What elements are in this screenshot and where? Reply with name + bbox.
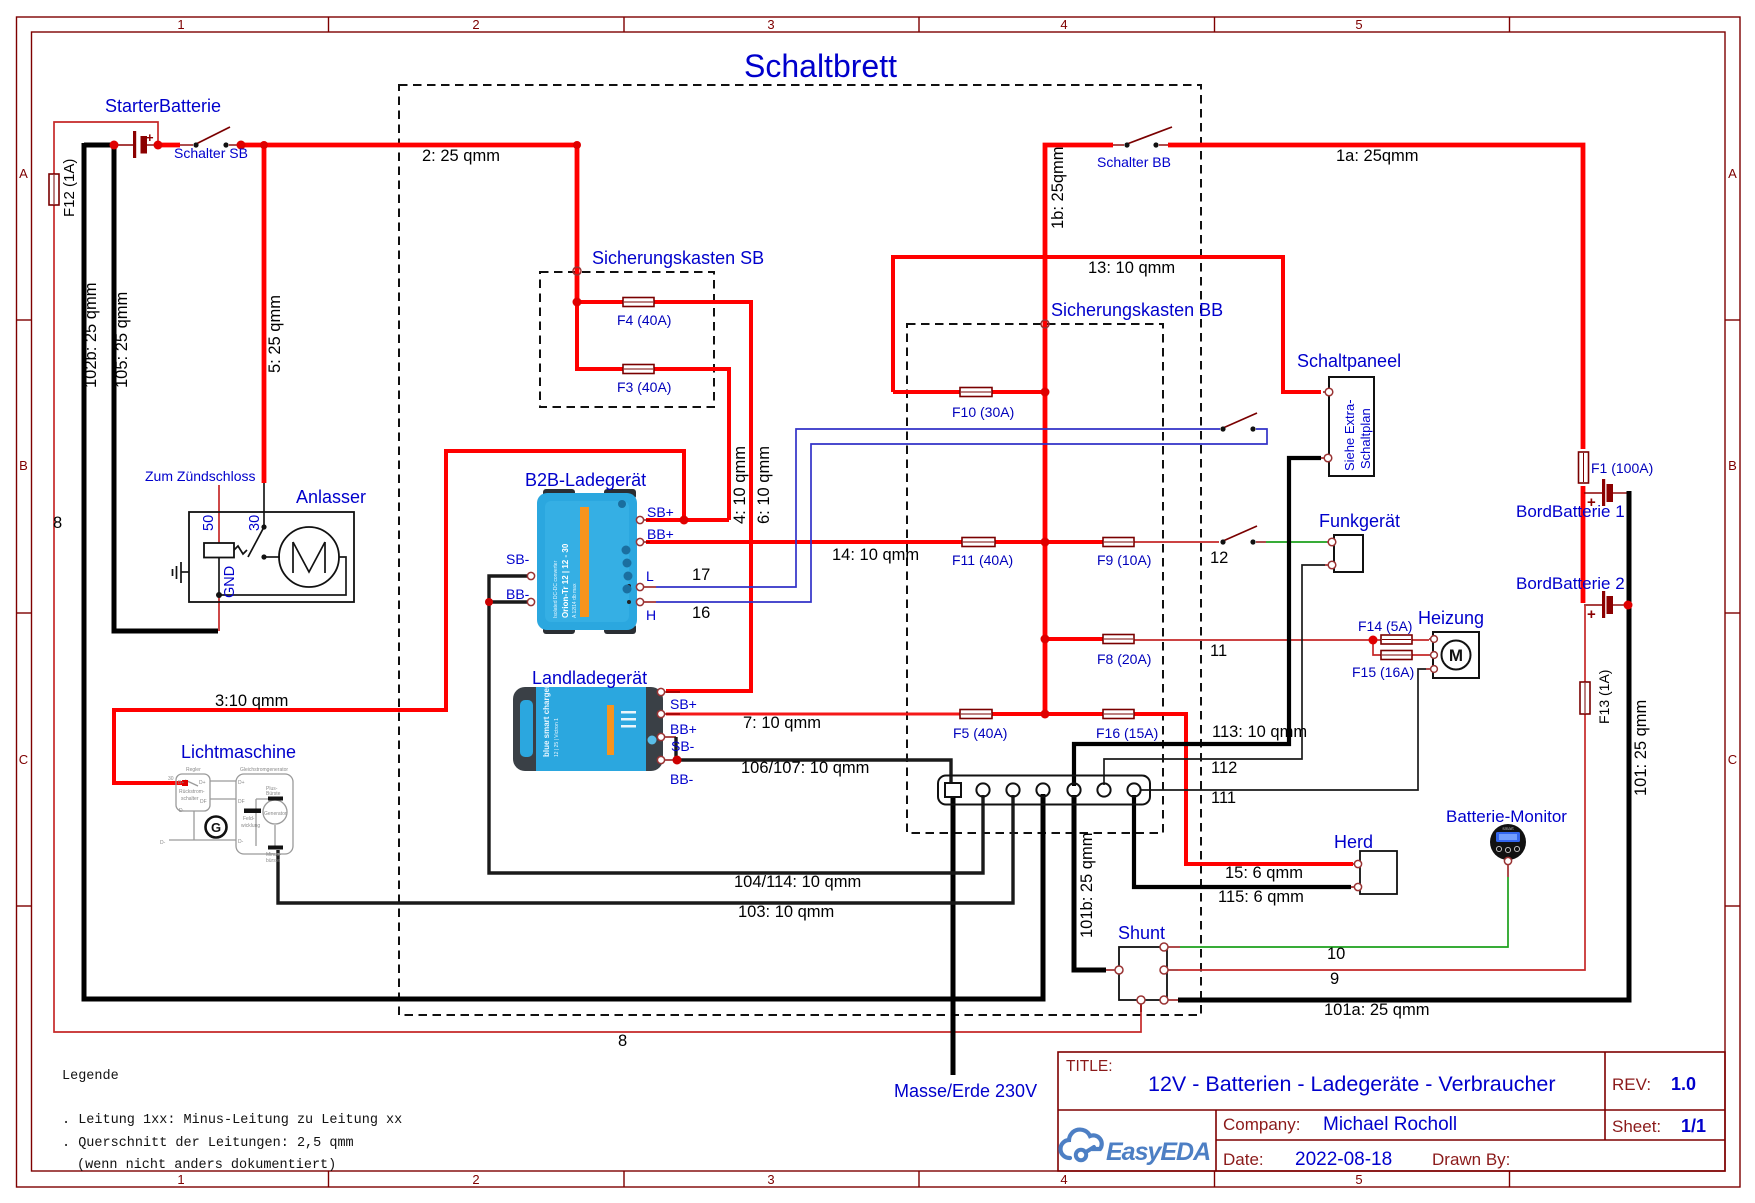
svg-text:Company:: Company:: [1223, 1115, 1300, 1134]
svg-text:D-: D-: [238, 839, 244, 845]
svg-text:BB+: BB+: [670, 721, 697, 737]
svg-text:1: 1: [177, 17, 184, 32]
svg-text:12: 12: [1210, 549, 1228, 567]
svg-text:F15 (16A): F15 (16A): [1352, 664, 1414, 680]
svg-text:SB-: SB-: [506, 551, 530, 567]
svg-text:Masse/Erde 230V: Masse/Erde 230V: [894, 1081, 1037, 1101]
svg-text:F4 (40A): F4 (40A): [617, 312, 671, 328]
svg-text:G: G: [211, 820, 221, 835]
svg-text:14: 10 qmm: 14: 10 qmm: [832, 546, 919, 564]
svg-text:17: 17: [692, 566, 710, 584]
svg-text:Sicherungskasten BB: Sicherungskasten BB: [1051, 300, 1223, 320]
svg-text:9: 9: [1330, 970, 1339, 988]
svg-text:D-: D-: [160, 840, 166, 846]
svg-text:Date:: Date:: [1223, 1150, 1264, 1169]
svg-text:1b: 25qmm: 1b: 25qmm: [1049, 146, 1067, 229]
svg-text:GND: GND: [222, 566, 238, 598]
svg-text:M: M: [1449, 646, 1463, 665]
svg-text:BordBatterie 2: BordBatterie 2: [1516, 574, 1625, 593]
svg-text:B: B: [1728, 458, 1737, 473]
svg-text:F3 (40A): F3 (40A): [617, 379, 671, 395]
svg-text:Sicherungskasten SB: Sicherungskasten SB: [592, 248, 764, 268]
svg-text:D+: D+: [238, 780, 245, 786]
svg-text:blue smart charger: blue smart charger: [542, 685, 551, 757]
svg-text:4: 10 qmm: 4: 10 qmm: [731, 446, 749, 524]
svg-text:L: L: [646, 568, 654, 584]
svg-text:1/1: 1/1: [1681, 1116, 1706, 1136]
svg-text:6: 10 qmm: 6: 10 qmm: [755, 446, 773, 524]
svg-text:F8 (20A): F8 (20A): [1097, 651, 1151, 667]
svg-text:B+: B+: [178, 780, 184, 786]
svg-text:Siehe Extra-: Siehe Extra-: [1342, 399, 1357, 471]
svg-text:+: +: [146, 130, 154, 145]
svg-text:12 | 25 | Victron 1: 12 | 25 | Victron 1: [554, 718, 560, 757]
svg-text:Isolated DC-DC converter: Isolated DC-DC converter: [553, 560, 559, 618]
svg-text:111: 111: [1211, 789, 1236, 807]
svg-text:Landladegerät: Landladegerät: [532, 668, 647, 688]
svg-text:smart: smart: [1502, 826, 1514, 831]
svg-text:104/114: 10 qmm: 104/114: 10 qmm: [734, 873, 861, 891]
svg-text:4: 4: [1060, 1172, 1067, 1187]
svg-text:5: 5: [1355, 17, 1362, 32]
svg-text:schalter: schalter: [181, 796, 199, 802]
svg-text:StarterBatterie: StarterBatterie: [105, 96, 221, 116]
svg-text:(wenn nicht anders dokumentier: (wenn nicht anders dokumentiert): [77, 1158, 336, 1173]
svg-text:Funkgerät: Funkgerät: [1319, 511, 1400, 531]
svg-text:5: 5: [1355, 1172, 1362, 1187]
svg-text:113: 10 qmm: 113: 10 qmm: [1212, 723, 1307, 741]
svg-text:2: 2: [472, 17, 479, 32]
svg-text:Feld-: Feld-: [243, 816, 255, 822]
svg-text:2: 2: [472, 1172, 479, 1187]
svg-text:11: 11: [1210, 642, 1227, 660]
svg-text:BB-: BB-: [670, 771, 694, 787]
svg-text:Anlasser: Anlasser: [296, 487, 366, 507]
svg-text:+: +: [1587, 606, 1596, 623]
svg-text:112: 112: [1211, 759, 1237, 777]
svg-text:Legende: Legende: [62, 1069, 119, 1084]
svg-text:wicklung: wicklung: [241, 823, 260, 829]
svg-text:Shunt: Shunt: [1118, 923, 1165, 943]
svg-text:1: 1: [177, 1172, 184, 1187]
svg-text:Rückstrom-: Rückstrom-: [179, 789, 205, 795]
svg-text:C: C: [19, 752, 28, 767]
svg-text:Sheet:: Sheet:: [1612, 1117, 1661, 1136]
svg-text:8: 8: [53, 514, 62, 532]
svg-text:7: 10 qmm: 7: 10 qmm: [743, 714, 821, 732]
svg-text:10: 10: [1327, 945, 1345, 963]
svg-text:115: 6 qmm: 115: 6 qmm: [1218, 888, 1304, 906]
svg-text:Drawn By:: Drawn By:: [1432, 1150, 1510, 1169]
svg-text:50: 50: [201, 515, 217, 531]
svg-text:15: 6 qmm: 15: 6 qmm: [1225, 864, 1303, 882]
svg-text:D+: D+: [199, 780, 206, 786]
svg-text:Orion-Tr 12 | 12 - 30: Orion-Tr 12 | 12 - 30: [561, 543, 570, 618]
svg-text:105: 25 qmm: 105: 25 qmm: [113, 292, 131, 388]
svg-text:1a: 25qmm: 1a: 25qmm: [1336, 147, 1419, 165]
svg-text:F5 (40A): F5 (40A): [953, 725, 1007, 741]
svg-text:A: A: [1728, 166, 1737, 181]
svg-text:3:10 qmm: 3:10 qmm: [215, 692, 288, 710]
svg-text:EasyEDA: EasyEDA: [1106, 1138, 1210, 1166]
svg-text:BB+: BB+: [647, 526, 674, 542]
svg-text:DF: DF: [200, 799, 207, 805]
svg-text:F13 (1A): F13 (1A): [1596, 670, 1612, 724]
svg-text:16: 16: [692, 604, 710, 622]
svg-text:Lichtmaschine: Lichtmaschine: [181, 742, 296, 762]
svg-text:Gleichstromgenerator: Gleichstromgenerator: [240, 767, 288, 773]
svg-text:SB-: SB-: [671, 738, 695, 754]
svg-text:1.0: 1.0: [1671, 1074, 1696, 1094]
svg-text:3: 3: [767, 17, 774, 32]
svg-text:Regler: Regler: [186, 767, 201, 773]
svg-text:12V - Batterien - Ladegeräte -: 12V - Batterien - Ladegeräte - Verbrauch…: [1148, 1072, 1556, 1096]
svg-text:B2B-Ladegerät: B2B-Ladegerät: [525, 470, 646, 490]
svg-text:Schaltbrett: Schaltbrett: [744, 48, 897, 84]
svg-text:Schalter SB: Schalter SB: [174, 145, 248, 161]
svg-text:H: H: [646, 607, 656, 623]
svg-text:DF: DF: [238, 799, 245, 805]
svg-text:D-: D-: [179, 808, 185, 814]
svg-text:Schaltplan: Schaltplan: [1358, 408, 1373, 469]
svg-text:101: 25 qmm: 101: 25 qmm: [1632, 700, 1650, 796]
svg-text:Batterie-Monitor: Batterie-Monitor: [1446, 807, 1567, 826]
svg-text:Heizung: Heizung: [1418, 608, 1484, 628]
svg-text:REV:: REV:: [1612, 1075, 1651, 1094]
svg-text:2: 25 qmm: 2: 25 qmm: [422, 147, 500, 165]
svg-text:5: 25 qmm: 5: 25 qmm: [266, 295, 284, 373]
svg-text:F11 (40A): F11 (40A): [952, 552, 1013, 568]
svg-text:F14 (5A): F14 (5A): [1358, 618, 1412, 634]
svg-text:Michael Rocholl: Michael Rocholl: [1323, 1114, 1457, 1135]
svg-text:. Querschnitt der Leitungen: 2: . Querschnitt der Leitungen: 2,5 qmm: [62, 1136, 354, 1151]
svg-text:C: C: [1728, 752, 1737, 767]
svg-text:101a: 25 qmm: 101a: 25 qmm: [1324, 1001, 1429, 1019]
svg-text:F9 (10A): F9 (10A): [1097, 552, 1151, 568]
svg-text:SB+: SB+: [647, 504, 674, 520]
svg-text:Generator: Generator: [264, 811, 287, 817]
svg-text:Zum Zündschloss: Zum Zündschloss: [145, 468, 255, 484]
svg-text:A: A: [19, 166, 28, 181]
svg-text:TITLE:: TITLE:: [1066, 1058, 1113, 1075]
svg-text:BordBatterie 1: BordBatterie 1: [1516, 502, 1625, 521]
svg-text:8: 8: [618, 1032, 627, 1050]
svg-text:4: 4: [1060, 17, 1067, 32]
svg-text:bürste: bürste: [266, 858, 280, 864]
svg-text:Schaltpaneel: Schaltpaneel: [1297, 351, 1401, 371]
svg-text:101b: 25 qmm: 101b: 25 qmm: [1078, 833, 1096, 938]
svg-text:SB+: SB+: [670, 696, 697, 712]
svg-text:30: 30: [247, 515, 263, 531]
svg-text:Schalter BB: Schalter BB: [1097, 154, 1171, 170]
svg-text:103: 10 qmm: 103: 10 qmm: [738, 903, 834, 921]
svg-text:. Leitung 1xx: Minus-Leitung z: . Leitung 1xx: Minus-Leitung zu Leitung …: [62, 1113, 402, 1128]
svg-text:Herd: Herd: [1334, 832, 1373, 852]
svg-text:F12 (1A): F12 (1A): [61, 159, 78, 217]
svg-text:102b: 25 qmm: 102b: 25 qmm: [82, 283, 100, 388]
svg-text:A 12l14 db max: A 12l14 db max: [572, 583, 578, 618]
svg-text:13: 10 qmm: 13: 10 qmm: [1088, 259, 1175, 277]
svg-text:30: 30: [168, 776, 174, 782]
svg-text:F1 (100A): F1 (100A): [1591, 460, 1653, 476]
svg-text:F16 (15A): F16 (15A): [1096, 725, 1158, 741]
svg-text:2022-08-18: 2022-08-18: [1295, 1149, 1392, 1170]
svg-text:106/107: 10 qmm: 106/107: 10 qmm: [741, 759, 869, 777]
svg-text:3: 3: [767, 1172, 774, 1187]
svg-text:BB-: BB-: [506, 586, 530, 602]
svg-text:F10 (30A): F10 (30A): [952, 404, 1014, 420]
svg-text:B: B: [19, 458, 28, 473]
svg-text:Bürste: Bürste: [266, 791, 281, 797]
